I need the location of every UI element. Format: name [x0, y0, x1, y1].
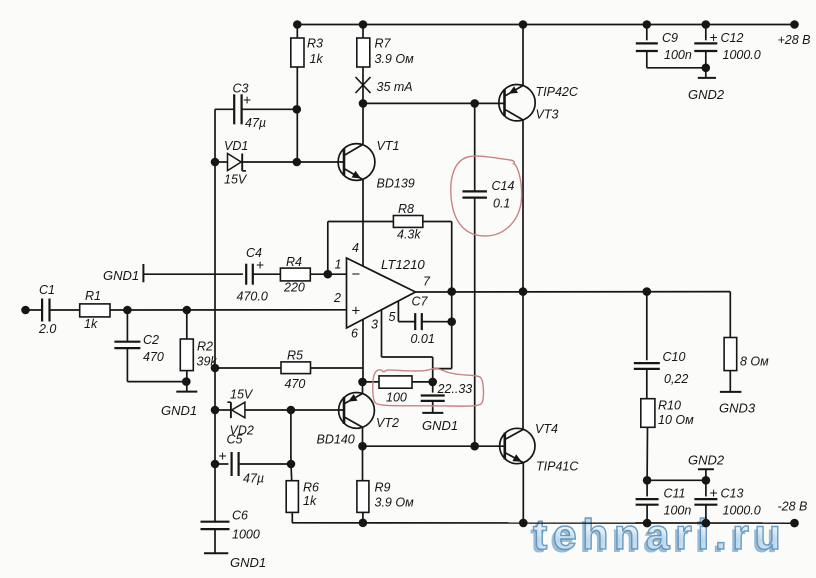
svg-text:R9: R9: [375, 481, 391, 495]
svg-text:tehnari.ru: tehnari.ru: [533, 511, 786, 559]
svg-text:+: +: [256, 257, 264, 273]
svg-text:6: 6: [351, 327, 358, 341]
svg-text:15V: 15V: [224, 173, 248, 187]
svg-text:+: +: [352, 303, 361, 320]
svg-text:4.3k: 4.3k: [397, 228, 421, 242]
svg-text:3.9 Ом: 3.9 Ом: [375, 496, 415, 510]
svg-text:R4: R4: [286, 255, 302, 269]
svg-text:R1: R1: [85, 289, 101, 303]
svg-text:8 Ом: 8 Ом: [740, 355, 769, 369]
svg-text:GND2: GND2: [688, 453, 725, 468]
svg-text:47µ: 47µ: [245, 116, 266, 130]
svg-text:−: −: [352, 266, 361, 283]
svg-text:GND2: GND2: [688, 87, 725, 102]
svg-text:R5: R5: [287, 349, 303, 363]
svg-text:15V: 15V: [230, 388, 254, 402]
svg-text:0.01: 0.01: [411, 332, 435, 346]
svg-text:R3: R3: [307, 37, 323, 51]
svg-text:47µ: 47µ: [243, 472, 264, 486]
svg-text:C7: C7: [412, 295, 429, 309]
svg-text:C9: C9: [662, 31, 678, 45]
svg-text:C5: C5: [227, 433, 243, 447]
svg-text:+: +: [243, 92, 251, 108]
svg-text:470: 470: [285, 377, 306, 391]
svg-text:GND1: GND1: [230, 555, 266, 570]
svg-text:VT3: VT3: [536, 108, 559, 122]
svg-text:0,22: 0,22: [664, 372, 688, 386]
svg-text:GND1: GND1: [161, 403, 197, 418]
svg-text:R2: R2: [197, 340, 213, 354]
svg-text:22..33: 22..33: [437, 382, 473, 396]
svg-text:7: 7: [423, 275, 431, 289]
svg-text:R7: R7: [375, 37, 392, 51]
svg-text:VT4: VT4: [535, 422, 558, 436]
svg-text:C10: C10: [663, 350, 686, 364]
svg-text:470: 470: [143, 350, 164, 364]
svg-text:C13: C13: [721, 487, 744, 501]
svg-text:VD1: VD1: [224, 139, 248, 153]
svg-text:GND1: GND1: [103, 268, 139, 283]
svg-text:100n: 100n: [664, 48, 692, 62]
svg-text:R8: R8: [398, 202, 414, 216]
svg-text:470.0: 470.0: [237, 290, 268, 304]
svg-text:BD140: BD140: [317, 433, 355, 447]
svg-text:3.9 Ом: 3.9 Ом: [375, 52, 415, 66]
svg-text:-28 В: -28 В: [778, 500, 808, 514]
svg-text:5: 5: [389, 310, 396, 324]
svg-text:GND1: GND1: [422, 418, 458, 433]
svg-text:3: 3: [371, 318, 378, 332]
svg-text:+: +: [710, 485, 718, 501]
svg-text:VT2: VT2: [376, 416, 399, 430]
svg-text:TIP41C: TIP41C: [536, 460, 579, 474]
svg-text:C2: C2: [143, 333, 159, 347]
svg-text:+: +: [710, 29, 718, 45]
svg-text:VT1: VT1: [377, 139, 400, 153]
svg-text:4: 4: [352, 241, 359, 255]
svg-text:1000: 1000: [232, 528, 260, 542]
svg-text:100: 100: [386, 391, 407, 405]
svg-text:LT1210: LT1210: [381, 257, 425, 272]
svg-text:1k: 1k: [303, 494, 317, 508]
svg-text:1k: 1k: [310, 52, 324, 66]
svg-text:R10: R10: [658, 399, 681, 413]
svg-text:C11: C11: [664, 487, 686, 501]
svg-text:TIP42C: TIP42C: [536, 85, 579, 99]
svg-text:+: +: [219, 448, 227, 464]
svg-text:C14: C14: [492, 179, 515, 193]
svg-text:C6: C6: [232, 509, 248, 523]
svg-text:100n: 100n: [664, 504, 692, 518]
svg-text:BD139: BD139: [377, 177, 415, 191]
svg-text:C1: C1: [39, 283, 55, 297]
svg-text:35 mA: 35 mA: [377, 80, 413, 94]
svg-text:220: 220: [283, 281, 305, 295]
svg-text:1k: 1k: [84, 317, 98, 331]
svg-text:10 Ом: 10 Ом: [658, 413, 694, 427]
svg-text:1000.0: 1000.0: [723, 48, 761, 62]
svg-text:1: 1: [335, 258, 342, 272]
svg-text:+28 В: +28 В: [778, 33, 811, 47]
svg-text:2: 2: [333, 291, 341, 305]
svg-text:R6: R6: [303, 481, 319, 495]
svg-text:2.0: 2.0: [38, 322, 56, 336]
svg-text:1000.0: 1000.0: [723, 504, 761, 518]
svg-text:0.1: 0.1: [493, 197, 510, 211]
svg-text:C12: C12: [721, 31, 744, 45]
svg-text:GND3: GND3: [719, 401, 756, 416]
